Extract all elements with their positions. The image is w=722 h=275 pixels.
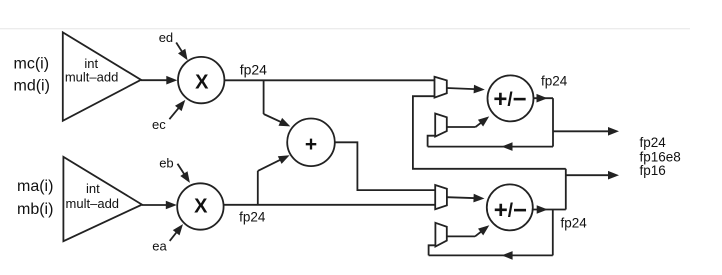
wire U2 to multiplier X2 — [142, 204, 173, 206]
wire U4 feedback to M4 — [429, 254, 553, 256]
add/sub U4 (bottom) — [487, 184, 533, 230]
wire ea input arrow — [170, 228, 181, 241]
svg-text:ec: ec — [152, 117, 166, 132]
wire adder output to mux M3 — [335, 142, 435, 190]
mux M4 (bottom feedback path) — [435, 223, 446, 247]
svg-text:fp24: fp24 — [561, 215, 588, 230]
wire node to adder input 1 — [263, 80, 265, 114]
wire top fp24 bus — [224, 79, 434, 81]
svg-text:fp24: fp24 — [541, 74, 568, 89]
svg-text:mc(i): mc(i) — [14, 55, 50, 72]
wire node to adder input 2 — [257, 171, 259, 205]
svg-text:X: X — [195, 71, 209, 93]
svg-text:md(i): md(i) — [14, 77, 50, 94]
wire U3 feedback to M2 — [428, 146, 553, 148]
wire U4 result up to node A — [565, 169, 567, 210]
svg-text:+: + — [305, 133, 317, 156]
svg-text:fp16e8: fp16e8 — [640, 149, 681, 164]
wire node A to M1 second input — [413, 96, 566, 169]
svg-text:mult–add: mult–add — [65, 69, 118, 84]
svg-text:fp16: fp16 — [640, 163, 666, 178]
adder A1 — [287, 119, 335, 167]
wire U4 output — [533, 209, 566, 211]
svg-text:X: X — [194, 196, 208, 218]
svg-text:mb(i): mb(i) — [17, 201, 53, 218]
wire eb input arrow — [178, 164, 188, 179]
int mult-add block U2 (bottom) — [63, 157, 142, 241]
wire U1 to multiplier X1 — [141, 79, 174, 81]
svg-text:int: int — [86, 181, 100, 196]
wire fp16 result output — [566, 174, 615, 176]
multiplier X1 (top) — [178, 57, 224, 103]
wire M1 to add/sub U3 — [447, 88, 481, 89]
svg-text:fp24: fp24 — [640, 135, 667, 150]
svg-text:ed: ed — [159, 30, 173, 45]
svg-text:fp24: fp24 — [239, 209, 266, 224]
wire fp24 result output — [553, 130, 615, 132]
multiplier X2 (bottom) — [177, 183, 223, 229]
wire M2 to add/sub U3 — [447, 126, 476, 128]
svg-text:ma(i): ma(i) — [17, 178, 53, 195]
wire ed input arrow — [176, 43, 185, 57]
svg-text:eb: eb — [159, 156, 173, 171]
wire bottom fp24 bus — [224, 204, 436, 206]
wire ec input arrow — [169, 104, 182, 119]
wire U4 output down — [552, 210, 554, 256]
svg-text:fp24: fp24 — [240, 62, 267, 78]
svg-text:ea: ea — [152, 239, 167, 254]
int mult-add block U1 (top) — [63, 32, 141, 121]
mux M1 (top straight path) — [435, 77, 447, 98]
mux M3 (bottom adder path) — [435, 185, 447, 209]
wire U3 output down — [552, 98, 554, 146]
svg-text:+/−: +/− — [493, 86, 526, 113]
svg-text:+/−: +/− — [494, 197, 527, 224]
mux M2 (top feedback path) — [435, 114, 447, 137]
wire M4 to add/sub U4 — [447, 235, 475, 237]
faint rule — [0, 28, 690, 30]
wire M3 to add/sub U4 — [447, 197, 480, 198]
svg-text:mult–add: mult–add — [66, 196, 119, 211]
wire U3 output — [534, 97, 554, 99]
add/sub U3 (top) — [488, 75, 534, 121]
